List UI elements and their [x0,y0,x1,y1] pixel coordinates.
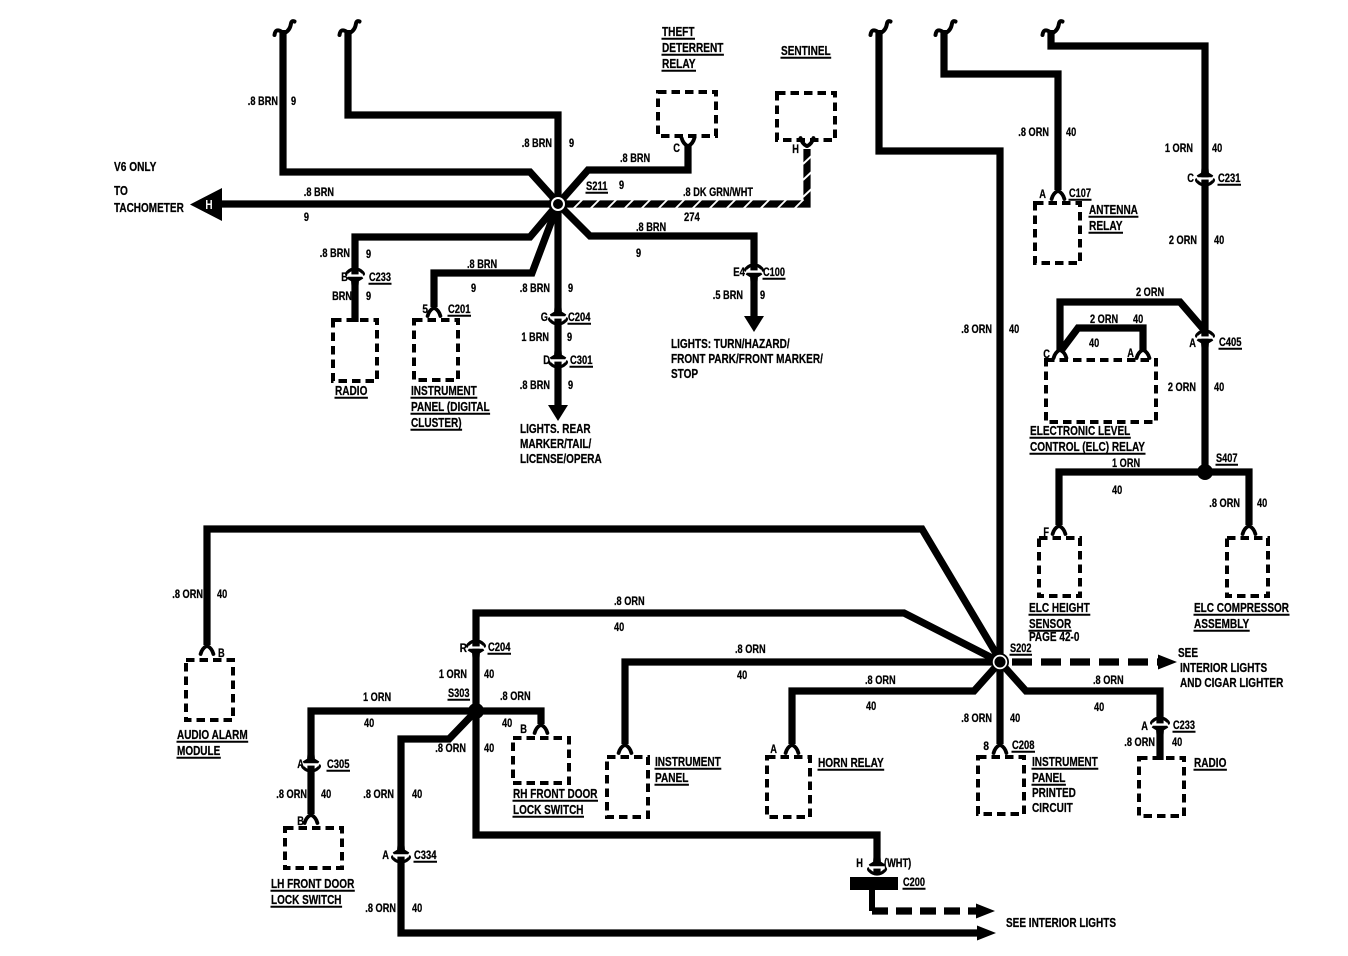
pin label 8 [983,741,989,753]
label .8 ORN [735,644,766,656]
svg-text:PAGE 42-0: PAGE 42-0 [1029,630,1079,644]
theft deterrent relay box [658,92,716,136]
svg-text:.8 ORN: .8 ORN [735,644,766,656]
svg-text:.8 ORN: .8 ORN [1124,737,1155,749]
connector C301 cavity D [550,349,567,367]
label 40 [1172,737,1182,749]
svg-text:40: 40 [502,718,512,730]
svg-text:2 ORN: 2 ORN [1169,235,1197,247]
svg-text:SEE INTERIOR LIGHTS: SEE INTERIOR LIGHTS [1006,916,1116,930]
label C301 [570,355,593,367]
svg-text:MARKER/TAIL/: MARKER/TAIL/ [520,437,592,451]
pin 5 connector C201 [428,308,441,316]
label .8 ORN [1018,127,1049,139]
svg-text:B: B [341,272,348,284]
label 1 ORN [439,669,467,681]
svg-text:1 ORN: 1 ORN [1112,458,1140,470]
svg-text:2 ORN: 2 ORN [1090,314,1118,326]
svg-text:ELC COMPRESSOR: ELC COMPRESSOR [1194,601,1289,615]
svg-text:.8 BRN: .8 BRN [520,283,550,295]
svg-text:9: 9 [636,248,641,260]
wire .8 BRN S211 to connector C201 cavity 5 [434,204,558,307]
wire .8 BRN S211 to theft deterrent relay pin C [558,146,688,204]
note LIGHTS: TURN/HAZARD/ [671,337,790,351]
label .8 DK GRN/WHT [683,187,753,199]
title RADIO [1194,756,1227,770]
svg-text:AUDIO ALARM: AUDIO ALARM [177,728,248,742]
svg-text:THEFT: THEFT [662,25,695,39]
label 40 [866,701,876,713]
pin label C [673,143,680,155]
pin B audio alarm module [201,646,214,654]
ELC height sensor box [1039,538,1080,596]
svg-text:C100: C100 [763,267,785,279]
svg-text:(WHT): (WHT) [884,858,911,870]
svg-text:TACHOMETER: TACHOMETER [114,201,184,215]
svg-text:A: A [297,759,304,771]
note TO [114,184,128,198]
svg-text:A: A [1189,338,1196,350]
pin C theft deterrent relay [682,138,695,146]
label 40 [484,669,494,681]
label 1 ORN [1165,143,1193,155]
splice S202 [991,653,1009,671]
note FRONT PARK/FRONT MARKER/ [671,352,823,366]
svg-text:9: 9 [304,212,309,224]
svg-text:.8 ORN: .8 ORN [500,691,531,703]
title RELAY [1089,219,1123,233]
svg-text:BRN: BRN [332,291,352,303]
svg-text:A: A [1039,189,1046,201]
svg-text:CONTROL (ELC) RELAY: CONTROL (ELC) RELAY [1030,440,1146,454]
wire .8 ORN S303 to connector C334 cavity A [401,711,476,849]
title PANEL [655,771,689,785]
note CIRCUIT [1032,801,1073,815]
label .8 ORN [365,903,396,915]
title RELAY [662,57,696,71]
svg-text:PANEL (DIGITAL: PANEL (DIGITAL [411,400,490,414]
pin B LH front door lock switch [305,815,318,823]
label 2 ORN [1136,287,1164,299]
label 40 [737,670,747,682]
svg-text:RADIO: RADIO [1194,756,1227,770]
note TACHOMETER [114,201,184,215]
pin label F [1043,527,1049,539]
svg-text:H: H [205,198,212,212]
svg-text:ASSEMBLY: ASSEMBLY [1194,617,1250,631]
label .8 BRN [620,153,650,165]
title ASSEMBLY [1194,617,1250,631]
pin H sentinel [801,138,814,146]
svg-text:.8 ORN: .8 ORN [172,589,203,601]
label 9 [760,290,765,302]
wire 1 ORN S407 to ELC height sensor pin F [1059,472,1205,525]
svg-text:40: 40 [1112,485,1122,497]
label .8 BRN [248,96,278,108]
title RH FRONT DOOR [513,787,598,801]
label 40 [1212,143,1222,155]
svg-text:9: 9 [471,283,476,295]
svg-text:TO: TO [114,184,128,198]
svg-text:.5 BRN: .5 BRN [713,290,743,302]
svg-text:ELECTRONIC LEVEL: ELECTRONIC LEVEL [1030,424,1131,438]
svg-text:C405: C405 [1219,337,1242,349]
svg-text:RELAY: RELAY [1089,219,1123,233]
svg-text:R: R [460,643,468,655]
label 2 ORN [1090,314,1118,326]
label .8 ORN [1209,498,1240,510]
wire .8 ORN S303 up through C204 R to S202 [476,613,1000,711]
title ELC HEIGHT [1029,601,1090,615]
svg-text:1 BRN: 1 BRN [521,332,549,344]
label 9 [567,332,572,344]
label C334 [414,850,437,862]
label 40 [1009,324,1019,336]
svg-text:C301: C301 [570,355,593,367]
title THEFT [662,25,695,39]
svg-text:.8 DK GRN/WHT: .8 DK GRN/WHT [683,187,753,199]
title LH FRONT DOOR [271,877,354,891]
wire 1 ORN S303 to connector C305 cavity A [311,711,476,758]
svg-text:9: 9 [568,380,573,392]
label 40 [1010,713,1020,725]
svg-text:9: 9 [366,291,371,303]
svg-text:INTERIOR LIGHTS: INTERIOR LIGHTS [1180,661,1267,675]
label 9 [636,248,641,260]
RH front door lock switch box [513,738,569,783]
connector C305 cavity A [303,753,320,771]
svg-text:40: 40 [1212,143,1222,155]
svg-text:40: 40 [1010,713,1020,725]
svg-text:C233: C233 [369,272,391,284]
title INSTRUMENT [655,755,721,769]
label 1 BRN [521,332,549,344]
svg-text:CLUSTER): CLUSTER) [411,416,462,430]
instrument panel digital cluster box [414,320,458,380]
svg-text:G: G [541,312,548,324]
label C233 [1173,720,1195,732]
note SEE INTERIOR LIGHTS [1006,916,1116,930]
svg-text:.8 BRN: .8 BRN [304,187,334,199]
svg-text:.8 BRN: .8 BRN [620,153,650,165]
svg-text:C107: C107 [1069,188,1091,200]
svg-text:40: 40 [1089,338,1099,350]
pin label A [1189,338,1196,350]
svg-text:.8 ORN: .8 ORN [961,713,992,725]
svg-text:C200: C200 [903,877,925,889]
svg-text:.8 BRN: .8 BRN [467,259,497,271]
title DETERRENT [662,41,724,55]
svg-text:C201: C201 [448,304,471,316]
svg-text:RH FRONT DOOR: RH FRONT DOOR [513,787,598,801]
svg-text:A: A [1141,721,1148,733]
svg-text:V6 ONLY: V6 ONLY [114,160,157,174]
svg-text:C334: C334 [414,850,437,862]
label S407 [1216,453,1238,465]
arrowhead bottom run [977,926,996,941]
svg-text:9: 9 [569,138,574,150]
pin F ELC height sensor [1053,526,1066,534]
label C100 [763,267,785,279]
title PANEL (DIGITAL [411,400,490,414]
pin label B [520,724,527,736]
svg-text:S303: S303 [448,688,470,700]
svg-text:8: 8 [983,741,989,753]
label .8 ORN [363,789,394,801]
ELC compressor assembly box [1227,538,1268,596]
pin A ELC relay [1137,350,1150,358]
connector C204 cavity G [550,306,567,324]
label 274 [684,212,700,224]
label C231 [1218,173,1241,185]
svg-text:.8 ORN: .8 ORN [1018,127,1049,139]
svg-text:LIGHTS: TURN/HAZARD/: LIGHTS: TURN/HAZARD/ [671,337,790,351]
electronic level control relay box [1046,360,1156,422]
wire .8 ORN S303 down and across to C200 cavity H [476,711,877,861]
svg-text:PANEL: PANEL [1032,771,1066,785]
wire BRN C233 to radio [351,282,358,322]
svg-text:40: 40 [1009,324,1019,336]
svg-text:AND CIGAR LIGHTER: AND CIGAR LIGHTER [1180,676,1283,690]
note SEE [1178,646,1198,660]
splice S407 [1197,464,1213,480]
wire stub below C200 [869,888,875,911]
wire-end curl second feed [340,21,360,35]
svg-text:CIRCUIT: CIRCUIT [1032,801,1073,815]
LH front door lock switch box [285,828,342,868]
label C204 [568,312,591,324]
pin label A [382,850,389,862]
pin label D [543,355,550,367]
pin label A [1141,721,1148,733]
wire .8 ORN feed (curl) down to splice S202 [879,30,1000,656]
svg-text:MODULE: MODULE [177,744,220,758]
wire-end curl orange feed B [936,21,956,35]
label 40 [1112,485,1122,497]
arrow to rear marker lights [548,405,568,421]
label .8 ORN [865,675,896,687]
arrowhead see interior lights (upper) [976,904,995,919]
svg-text:1 ORN: 1 ORN [1165,143,1193,155]
label 2 ORN [1168,382,1196,394]
label C405 [1219,337,1242,349]
label 9 [304,212,309,224]
underlines for component and connector labels [177,39,1290,907]
svg-text:C204: C204 [568,312,591,324]
svg-text:40: 40 [1172,737,1182,749]
svg-text:C231: C231 [1218,173,1241,185]
svg-text:40: 40 [1066,127,1076,139]
label (WHT) [884,858,911,870]
wire 1 ORN feed down to splice S407 [1051,30,1205,472]
wire 2 ORN 40 ELC relay pin A loop to pin C [1060,328,1143,352]
sentinel box [777,93,835,140]
title CONTROL (ELC) RELAY [1030,440,1146,454]
label 2 ORN [1169,235,1197,247]
label S211 [586,181,608,193]
svg-text:C204: C204 [488,642,511,654]
wire .8 ORN S202 to horn relay pin A [792,662,1000,744]
wire .8 ORN S303 to RH door switch pin B [476,711,541,724]
label .5 BRN [713,290,743,302]
pin label H [792,144,799,156]
label .8 ORN [1124,737,1155,749]
connector C200 bulkhead bar [850,877,898,890]
svg-text:.8 ORN: .8 ORN [1209,498,1240,510]
label 9 [366,291,371,303]
pin label B [341,272,348,284]
wire .8 ORN C334 down to bottom arrow [401,861,977,933]
title PANEL [1032,771,1066,785]
svg-text:9: 9 [619,180,624,192]
title SENTINEL [781,44,831,58]
instrument panel box (left) [607,757,648,817]
svg-text:40: 40 [1214,382,1224,394]
pin label 5 [422,304,428,316]
svg-text:SENTINEL: SENTINEL [781,44,831,58]
svg-text:.8 ORN: .8 ORN [614,596,645,608]
wire .8 ORN audio alarm module to S202 [207,529,1000,660]
label H (white) [205,198,212,212]
label C204 [488,642,511,654]
pin label A [297,759,304,771]
svg-text:40: 40 [321,789,331,801]
splice S303 [468,703,484,719]
title LOCK SWITCH [513,803,584,817]
label 40 [364,718,374,730]
label 40 [484,743,494,755]
title LOCK SWITCH [271,893,342,907]
svg-text:C208: C208 [1012,740,1035,752]
svg-text:LH FRONT DOOR: LH FRONT DOOR [271,877,354,891]
title AUDIO ALARM [177,728,248,742]
svg-text:274: 274 [684,212,700,224]
title INSTRUMENT [1032,755,1098,769]
svg-text:SENSOR: SENSOR [1029,617,1071,631]
svg-text:40: 40 [1257,498,1267,510]
label 1 ORN [363,692,391,704]
label .8 ORN [1093,675,1124,687]
svg-text:.8 BRN: .8 BRN [320,248,350,260]
pin label A [1039,189,1046,201]
svg-text:LOCK SWITCH: LOCK SWITCH [271,893,342,907]
label 40 [1133,314,1143,326]
svg-text:9: 9 [760,290,765,302]
label .8 BRN [520,380,550,392]
label .8 ORN [961,713,992,725]
svg-text:ELC HEIGHT: ELC HEIGHT [1029,601,1090,615]
note STOP [671,367,698,381]
label 40 [412,789,422,801]
label 1 ORN [1112,458,1140,470]
label .8 BRN [467,259,497,271]
wire .8 BRN C301 to rear lights [554,367,561,406]
wire .8 DK GRN/WHT 274 S211 to sentinel pin H (hatched) [562,149,812,209]
label .8 ORN [435,743,466,755]
label S202 [1010,643,1032,655]
label .8 ORN [961,324,992,336]
pin label R [460,643,468,655]
pin A horn relay [786,745,799,753]
svg-text:PRINTED: PRINTED [1032,786,1076,800]
svg-text:D: D [543,355,550,367]
label 40 [1214,235,1224,247]
label .8 BRN [320,248,350,260]
connector C204 cavity R [468,641,485,659]
wire .8 ORN C305 to LH door switch pin B [307,770,314,814]
svg-text:.8 BRN: .8 BRN [520,380,550,392]
svg-text:C: C [673,143,680,155]
connector C233 cavity B [347,269,364,287]
label 9 [366,249,371,261]
svg-text:40: 40 [614,622,624,634]
title INSTRUMENT [411,384,477,398]
svg-text:2 ORN: 2 ORN [1168,382,1196,394]
svg-text:INSTRUMENT: INSTRUMENT [655,755,721,769]
svg-text:A: A [382,850,389,862]
svg-text:.8 BRN: .8 BRN [248,96,278,108]
label .8 BRN [522,138,552,150]
svg-text:SEE: SEE [1178,646,1198,660]
instrument panel printed circuit box [978,757,1024,814]
pin C ELC relay [1054,350,1067,358]
title HORN RELAY [818,756,884,770]
title CLUSTER) [411,416,462,430]
svg-text:.8 ORN: .8 ORN [865,675,896,687]
note INTERIOR LIGHTS [1180,661,1267,675]
wire 2 ORN ELC relay pin C up-over to C405 [1060,302,1205,352]
arrowhead see interior lights and cigar lighter [1158,655,1177,670]
svg-text:S211: S211 [586,181,608,193]
svg-text:C: C [1187,173,1194,185]
label 40 [321,789,331,801]
note AND CIGAR LIGHTER [1180,676,1283,690]
label 9 [568,380,573,392]
note PAGE 42-0 [1029,630,1079,644]
dashed wire to interior lights [872,907,976,914]
svg-text:40: 40 [412,903,422,915]
svg-text:40: 40 [1133,314,1143,326]
wire .8 ORN feed to antenna relay C107 [944,30,1058,190]
title ELC COMPRESSOR [1194,601,1289,615]
wire .8 ORN S202 down to C208 [996,662,1003,744]
note MARKER/TAIL/ [520,437,592,451]
connector C231 cavity C [1197,167,1214,185]
label .8 ORN [500,691,531,703]
label 40 [1066,127,1076,139]
label 40 [217,589,227,601]
label C233 [369,272,391,284]
horn relay box [767,757,810,817]
label C200 [903,877,925,889]
label 9 [291,96,296,108]
svg-text:HORN RELAY: HORN RELAY [818,756,884,770]
connector C100 cavity E4 [746,265,763,283]
svg-text:.8 ORN: .8 ORN [961,324,992,336]
svg-text:40: 40 [1094,702,1104,714]
label 40 [1094,702,1104,714]
wire .8 ORN C233 to radio (right) [1156,731,1163,760]
svg-text:PANEL: PANEL [655,771,689,785]
wire-end curl left feed [275,21,295,35]
svg-text:S202: S202 [1010,643,1032,655]
wire .8 ORN S202 to instrument panel [625,662,1000,744]
svg-text:E4: E4 [733,267,745,279]
pin label H [856,858,863,870]
radio box (left) [333,320,377,381]
wire-end curl orange feed A [871,21,891,35]
pin 8 connector C208 [994,745,1007,753]
